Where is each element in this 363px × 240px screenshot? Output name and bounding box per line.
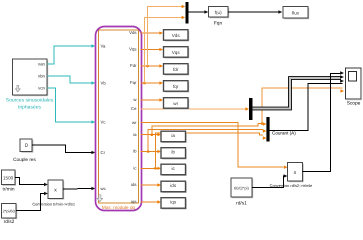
svg-text:iqs: iqs [131, 199, 137, 204]
wire: Fqr riser to top mux in2 [145, 18, 183, 84]
block: Sources sinusoidales triphasees (3-phase source subsystem) [13, 59, 49, 96]
icon: gray down-arrow inside subsystem [97, 195, 103, 202]
display block: ic [161, 164, 187, 176]
junction: Fdr branch [146, 65, 149, 68]
svg-text:Mas_module dq: Mas_module dq [102, 205, 136, 210]
wire: Fdr -> display fdr with branch up to mux (orange) [141, 65, 161, 67]
junction: ia-to-scope branch [261, 122, 264, 125]
svg-text:van: van [38, 62, 46, 67]
svg-text:Scope: Scope [347, 101, 361, 107]
svg-text:Vds: Vds [172, 33, 181, 38]
svg-text:ids: ids [170, 183, 177, 188]
wire: Courant mux -> scope in3 (black) [270, 84, 343, 131]
icon: gray down-arrow inside source block [15, 86, 20, 92]
svg-text:fdr: fdr [173, 67, 179, 72]
svg-text:x: x [54, 187, 57, 193]
wire: wr port7 -> down -> product conversion in1 (orange) [141, 123, 284, 168]
svg-text:Couple res: Couple res [13, 157, 36, 162]
wire: ib -> display ib (orange) [141, 151, 159, 153]
svg-text:Vc: Vc [101, 120, 107, 125]
wire: top mux -> f(u) (black) [189, 11, 206, 13]
svg-text:Cr: Cr [101, 150, 106, 155]
wire: iqs -> display iqs (orange) [141, 201, 159, 203]
svg-text:ib: ib [171, 150, 175, 155]
wire: 2*pi/60 -> product in2 (black) [16, 194, 45, 211]
block: Fcn f(u) [209, 7, 230, 19]
svg-text:Sources sinusoïdales: Sources sinusoïdales [6, 98, 54, 104]
wire: ia branch riser to scope in4 (orange) [262, 88, 343, 124]
block: product Conversion tr/min->rd/s1 [48, 180, 64, 200]
wire: ic branch riser to Courant mux in3 (orange) [155, 133, 263, 168]
svg-text:2*pi/60: 2*pi/60 [3, 208, 16, 213]
block: product Conversion rd/s2->tr/min [288, 163, 304, 183]
display block: fdr [164, 64, 190, 76]
display block: ids [161, 181, 187, 193]
display block: wr [164, 98, 190, 110]
svg-text:rd/s1: rd/s1 [236, 201, 247, 207]
wire: van -> Va (teal) [47, 46, 93, 64]
wire: Fqr -> display fqr with branch up to mux (orange) [141, 82, 161, 84]
wire: vbn -> Vb (teal) [47, 76, 93, 83]
svg-text:fqr: fqr [173, 84, 179, 89]
wire: ia -> display ia (orange) [141, 134, 159, 136]
junction: Fqr branch [143, 82, 146, 85]
highlight: purple rounded rectangle around subsystem [96, 27, 142, 211]
wire: vcn -> Vc (teal) [47, 88, 93, 122]
svg-text:vbn: vbn [38, 74, 46, 79]
mux: Courant (A) mux [266, 117, 269, 142]
mux: scope mux (vector to scope) [249, 98, 253, 120]
svg-text:vcn: vcn [38, 86, 45, 91]
wire: Ce -> scope mux (pale orange) [141, 108, 246, 110]
display block: Vds [164, 30, 190, 42]
block: constant 0 (Couple res) [20, 139, 33, 153]
wire: w -> display wr (orange) [141, 99, 161, 101]
display block: Vqs [164, 47, 190, 59]
svg-text:flux: flux [292, 11, 300, 16]
svg-text:iqs: iqs [170, 200, 177, 205]
svg-text:Vqs: Vqs [172, 50, 181, 55]
block: constant 1500 (tr/min) [1, 170, 16, 186]
wire: 60/(2*pi) -> product conversion in2 (black) [252, 176, 285, 188]
svg-text:Fqn: Fqn [214, 21, 223, 27]
svg-text:tr/min: tr/min [3, 187, 15, 193]
block: Scope [346, 68, 362, 100]
svg-text:Fqr: Fqr [130, 80, 137, 85]
junction: ic branch [154, 167, 157, 170]
wire: product -> wc (black) [63, 188, 93, 191]
svg-text:Vds: Vds [129, 30, 136, 35]
svg-text:Ce: Ce [131, 106, 137, 111]
wire: ic -> display ic (orange) [141, 167, 159, 169]
svg-text:Courant (A): Courant (A) [272, 130, 296, 135]
svg-text:rd/s2: rd/s2 [4, 219, 15, 225]
svg-text:0: 0 [25, 143, 28, 149]
wire: ib branch riser to Courant mux in2 (orange) [148, 130, 263, 152]
svg-text:Vb: Vb [101, 81, 107, 86]
svg-text:Conversion rd/s2->tr/mle: Conversion rd/s2->tr/mle [270, 183, 313, 188]
block: To Workspace flux [283, 7, 309, 20]
svg-text:Fdr: Fdr [130, 63, 137, 68]
svg-text:Va: Va [101, 44, 107, 49]
display block: iqs [161, 198, 187, 210]
display block: fqr [164, 81, 190, 93]
svg-text:60/(2*pi): 60/(2*pi) [234, 186, 249, 191]
svg-text:x: x [294, 170, 297, 176]
svg-text:f(u): f(u) [215, 10, 222, 15]
svg-text:wr: wr [132, 120, 137, 125]
wire: ia branch riser to Courant mux in1 (orange) [152, 124, 263, 135]
block: constant 2*pi/60 (rd/s2) [1, 203, 17, 219]
mux: top flux mux [186, 2, 189, 24]
wire: 0 -> Cr (black) [32, 145, 92, 152]
junction: ib branch [147, 150, 150, 153]
svg-text:wc: wc [101, 186, 107, 191]
subsystem: Mas_module dq (orange inner rect) [99, 30, 139, 203]
wire: Vds -> display Vds (orange) [141, 32, 161, 34]
wire: Vqs -> display Vqs (orange) [141, 49, 161, 51]
wire: product conversion -> scope in1 (black) [303, 74, 343, 172]
wire: ids -> display ids (orange) [141, 184, 159, 186]
display block: ib [161, 148, 187, 160]
svg-text:ia: ia [171, 133, 175, 138]
wire: scope mux thick vector -> scope in2 [253, 75, 345, 108]
svg-text:triphasées: triphasées [18, 105, 42, 111]
junction: ia branch [151, 133, 154, 136]
block: constant 60/(2*pi) (rd/s1) [231, 178, 253, 198]
wire: f(u) -> flux (black) [228, 11, 279, 13]
svg-text:Conversion tr/min->rd/s1: Conversion tr/min->rd/s1 [32, 202, 75, 207]
svg-text:1500: 1500 [3, 175, 14, 180]
display block: ia [161, 131, 187, 143]
wire: 1500 -> product in1 (black) [15, 177, 45, 184]
wire: Fdr riser to top mux in1 [148, 7, 183, 67]
svg-text:wr: wr [173, 101, 178, 106]
svg-text:ids: ids [131, 182, 137, 187]
svg-text:Vqs: Vqs [129, 47, 136, 52]
